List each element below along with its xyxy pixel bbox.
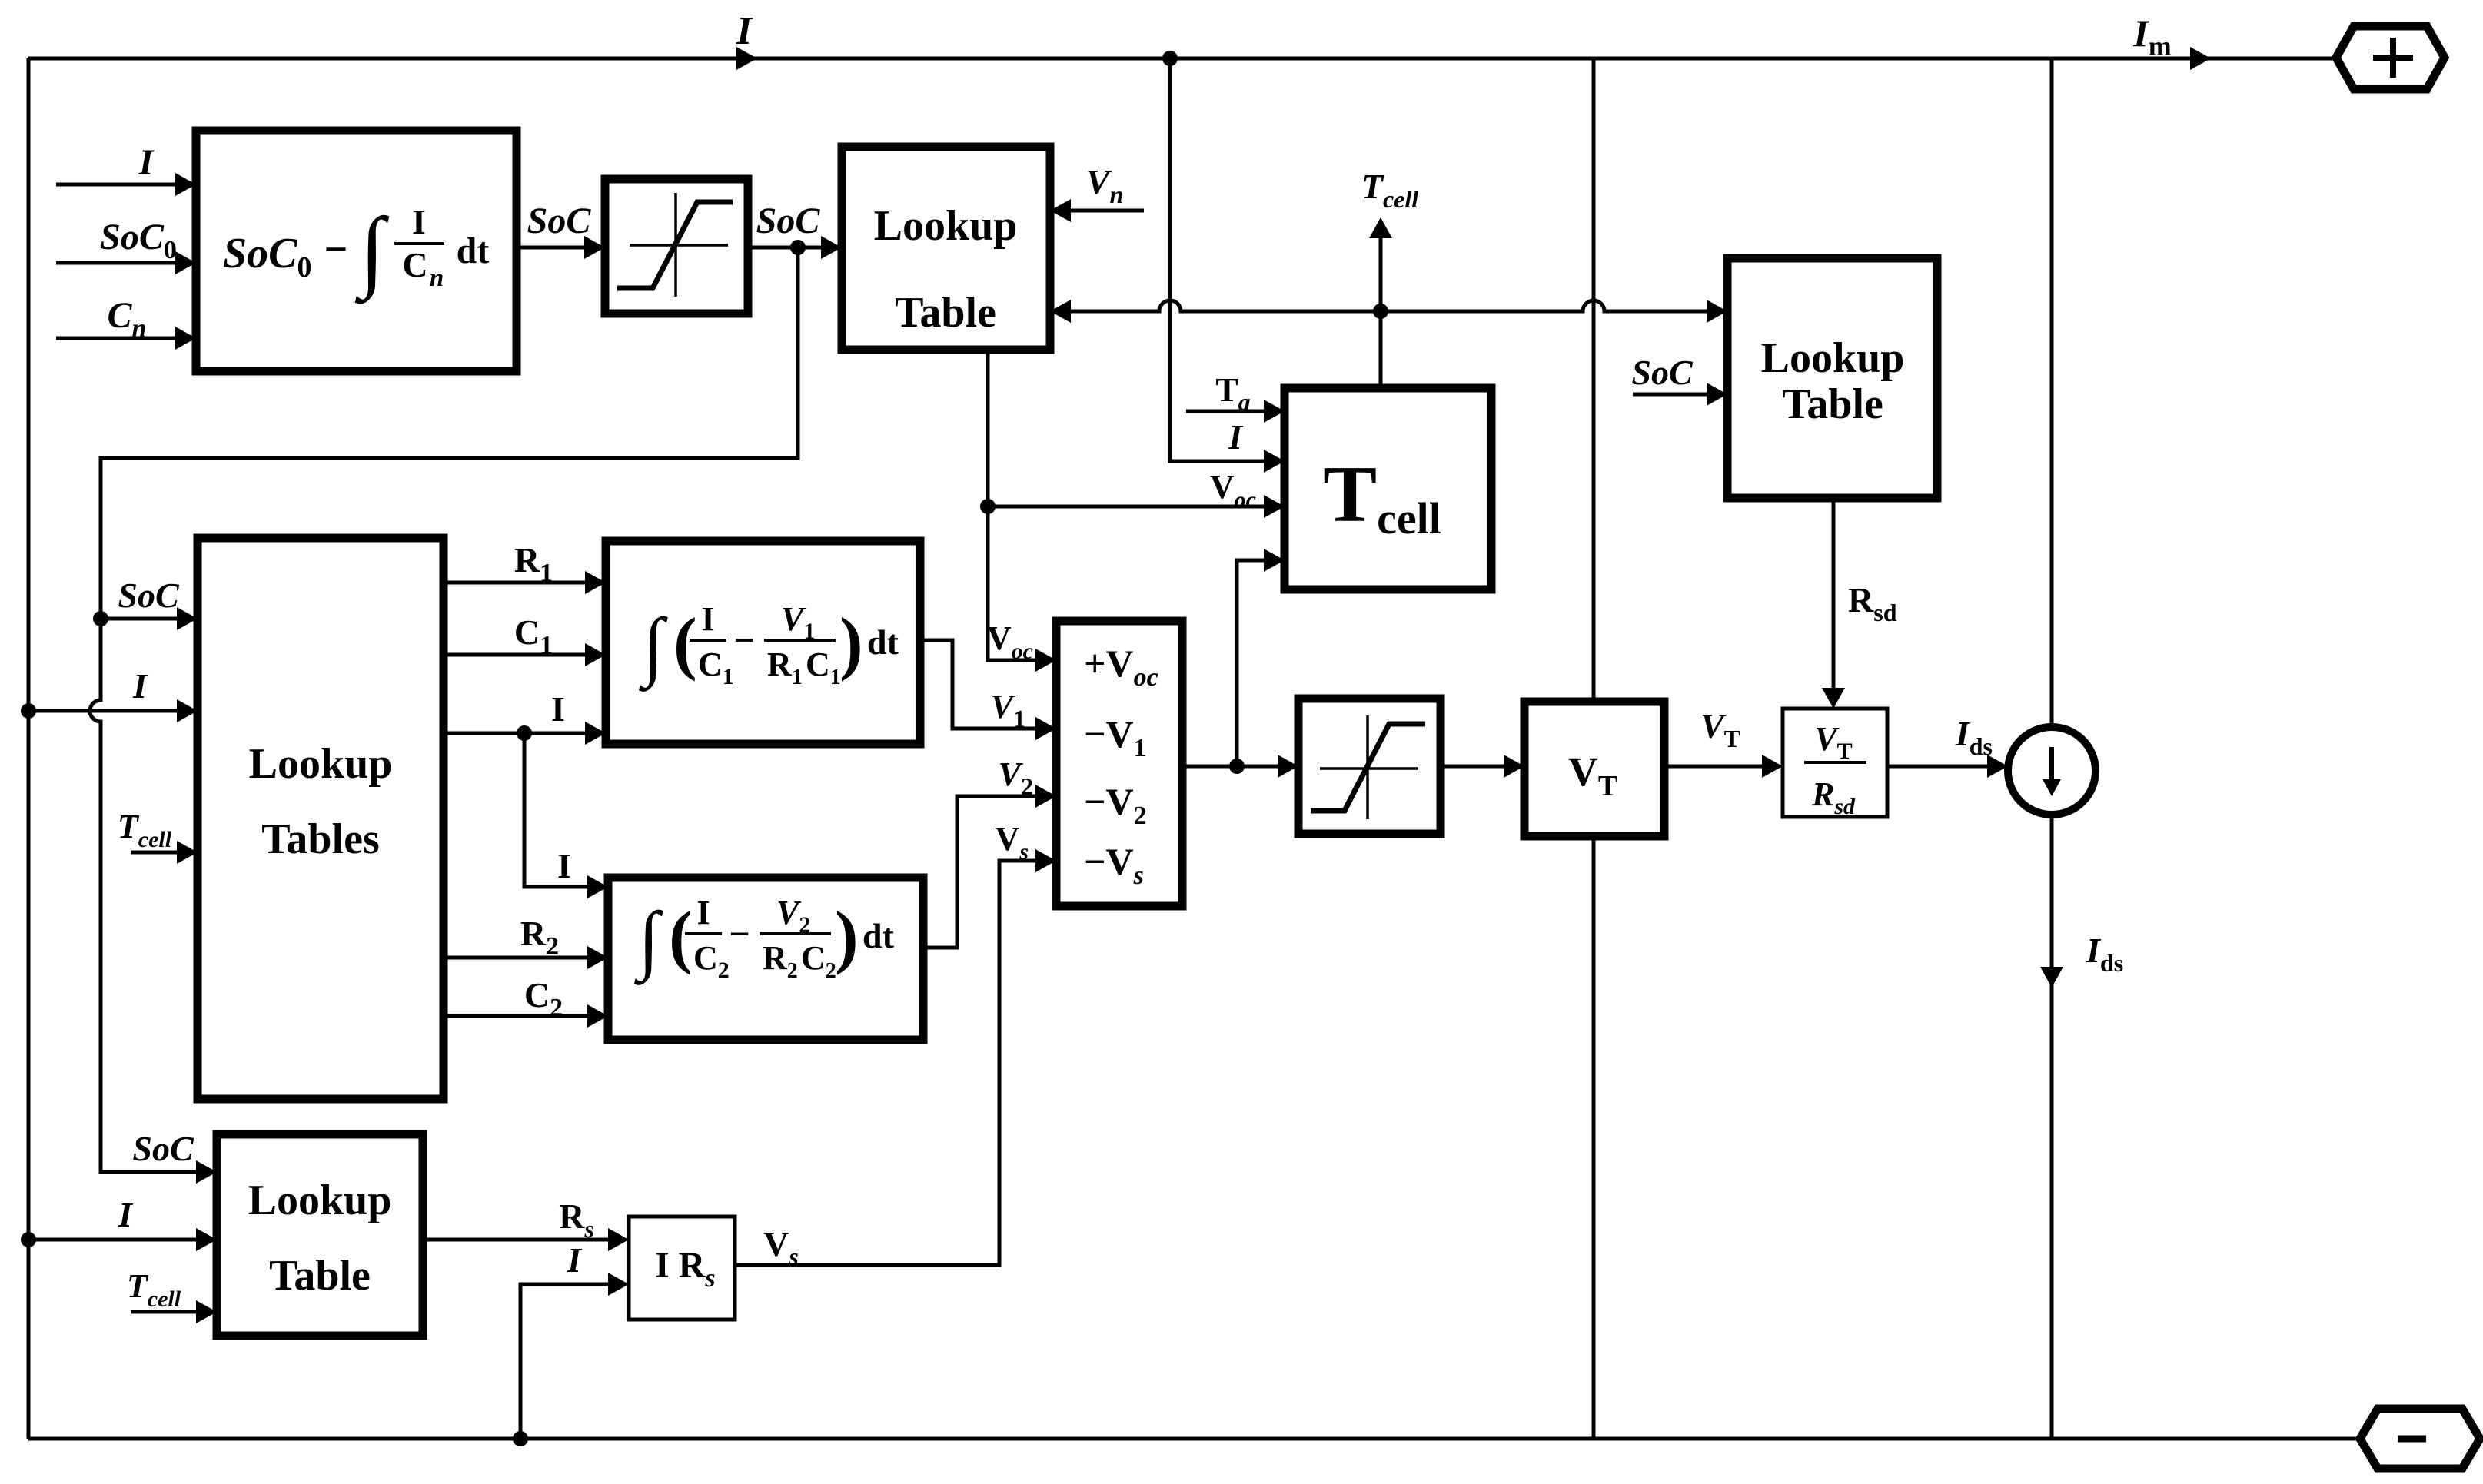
node: junction I to both RC integrators: [517, 725, 532, 741]
label Im on top rail: [2132, 12, 2171, 61]
label V1: [991, 688, 1025, 732]
label C1: [514, 613, 553, 659]
label I (RC integrator 2 input): [557, 846, 571, 885]
label Ids (wire): [1955, 714, 1993, 760]
label I (IRs input): [567, 1240, 583, 1280]
node: junction SoC branch: [790, 240, 806, 255]
node: junction Voc branch to Tcell block: [980, 499, 996, 514]
svg-text:∫: ∫: [638, 603, 668, 692]
wire: Vs from IRs to summing block: [735, 849, 1056, 1265]
label Ta: [1215, 371, 1250, 416]
arrow: SoC into saturation: [584, 236, 605, 259]
label I (bottom lookup table input): [118, 1195, 134, 1234]
label Tcell (middle lookup tables input): [118, 808, 172, 852]
wire: I input from left rail to bottom lookup table: [28, 1228, 217, 1251]
wire: SoC branch into middle lookup tables: [101, 607, 198, 630]
label Tcell (bottom lookup table input): [127, 1267, 181, 1312]
wire: Rs output to IRs block: [423, 1228, 629, 1251]
wire: Rsd output down to divider: [1822, 498, 1845, 709]
label I on top rail: [736, 9, 753, 53]
wire: summing output to saturation 2: [1182, 755, 1298, 778]
block: self-discharge current divider VT/Rsd: [1783, 709, 1887, 819]
svg-text:dt: dt: [867, 622, 899, 662]
svg-text:SoC: SoC: [1631, 353, 1694, 392]
wire: I branch from top rail to Tcell block: [1170, 58, 1285, 473]
wire: I branch from bottom rail to IRs block: [520, 1273, 629, 1439]
label I (RC integrator 1 input): [551, 689, 565, 729]
block: RC branch integrator 1 (int(I/C1 - V1/R1C1)dt): [606, 541, 920, 744]
block: series resistance lookup table (Rs = f(SoC,I,Tcell)): [217, 1134, 423, 1336]
arrow: Cn into integrator block: [175, 327, 196, 350]
node: junction SoC branch to middle lookup tables: [93, 611, 108, 626]
svg-text:Table: Table: [1782, 380, 1883, 428]
svg-text:dt: dt: [863, 916, 895, 955]
wire: Tcell input stub to middle lookup tables: [131, 841, 198, 864]
label R2: [520, 914, 559, 961]
svg-text:I: I: [132, 666, 148, 705]
terminal: - (negative battery terminal): [2360, 1409, 2480, 1469]
svg-text:Lookup: Lookup: [248, 1177, 392, 1224]
label I (integrator input): [138, 142, 155, 183]
terminal: + (positive battery terminal): [2336, 26, 2445, 89]
svg-text:Lookup: Lookup: [874, 202, 1018, 250]
block: self-discharge lookup table (Rsd = f(SoC,Tcell)): [1727, 258, 1937, 498]
wire: Ids to current source: [1887, 755, 2008, 778]
block: ohmic drop multiplier IRs: [629, 1217, 735, 1320]
arrow: Im flow on top rail: [2190, 47, 2211, 70]
wire: Vn input stub: [1050, 199, 1144, 222]
label VT (wire): [1700, 706, 1740, 752]
wire: branch from top rail down to VT block: [1592, 58, 1596, 702]
block: RC branch integrator 2 (int(I/C2 - V2/R2C2)dt): [608, 878, 923, 1040]
node: junction left rail to I input (middle lookup tables): [21, 703, 36, 719]
wire: Voc output down to summing block: [988, 350, 1056, 672]
svg-text:Table: Table: [269, 1252, 371, 1300]
block: terminal voltage VT: [1524, 702, 1664, 836]
wire: SoC feedback down-left-down to lower blocks: [90, 247, 798, 1184]
label Voc (Tcell input): [1210, 468, 1256, 513]
svg-text:SoC: SoC: [118, 576, 180, 615]
svg-text:n: n: [430, 264, 444, 292]
label R1: [514, 540, 553, 587]
svg-text:−: −: [729, 914, 750, 954]
wire: I feed to RC integrator 2: [524, 733, 608, 898]
svg-text:dt: dt: [457, 231, 490, 271]
svg-text:I: I: [736, 9, 753, 53]
svg-text:∫: ∫: [354, 199, 390, 304]
block: R1 C1 R2 C2 lookup tables: [198, 538, 444, 1099]
wire: I input stub to integrator block: [56, 183, 177, 187]
svg-text:SoC: SoC: [756, 201, 821, 241]
svg-text:I: I: [696, 894, 710, 931]
component: controlled current source Ids: [2008, 727, 2096, 815]
label Rs: [559, 1197, 594, 1243]
label SoC0: [100, 217, 177, 264]
label I (middle lookup tables input): [132, 666, 148, 705]
svg-text:): ): [839, 603, 863, 682]
label: formula integrator 1: [638, 600, 899, 692]
wire: V2 from integrator 2 to summing block: [923, 785, 1056, 948]
block: cell temperature model Tcell: [1285, 388, 1491, 589]
svg-text:∫: ∫: [633, 896, 663, 985]
svg-text:C: C: [402, 245, 427, 284]
block: voltage summing (+Voc -V1 -V2 -Vs): [1056, 621, 1182, 906]
svg-text:Tables: Tables: [261, 815, 380, 863]
label Vn: [1086, 162, 1123, 208]
svg-text:I: I: [412, 202, 426, 241]
block: saturation limiter (terminal voltage clamp): [1298, 699, 1441, 834]
label Tcell (output): [1361, 167, 1418, 213]
label: formula SoC0 - int I/Cn dt: [223, 199, 489, 304]
node: junction left rail to I input (bottom lookup table): [21, 1232, 36, 1247]
svg-text:Lookup: Lookup: [249, 740, 393, 788]
wire: saturation output SoC: [748, 246, 823, 250]
label V2: [999, 755, 1033, 800]
block: SoC coulomb-counting integrator (SoC0 - int I/Cn dt): [196, 131, 517, 371]
wire: Voc branch to Tcell block: [988, 495, 1285, 518]
label Ids (lower wire): [2086, 931, 2123, 977]
svg-text:I: I: [701, 600, 714, 638]
wire: V1 from integrator 1 to summing block: [920, 640, 1056, 740]
wire: Cn input stub: [56, 337, 177, 340]
wire: SoC input stub to Rsd lookup table: [1633, 383, 1727, 406]
label SoC (Rsd lookup input): [1631, 353, 1694, 392]
svg-text:(: (: [673, 603, 697, 682]
label Rsd: [1848, 580, 1897, 626]
svg-text:I: I: [118, 1195, 134, 1234]
node: junction top rail to I branch: [1162, 51, 1178, 66]
label SoC (before saturation): [527, 201, 592, 241]
block: OCV lookup table (Voc = f(SoC, Vn, Tcell)): [842, 147, 1050, 350]
wire: VT output to Ids divider: [1664, 755, 1783, 778]
svg-text:−: −: [324, 226, 348, 272]
wire: top rail I (left border top to + terminal): [28, 57, 2336, 61]
svg-text:I: I: [551, 689, 565, 729]
node: junction bottom rail to IRs I branch: [513, 1431, 528, 1446]
node: junction summing output branch: [1229, 759, 1245, 774]
arrow: I flow on top rail: [736, 47, 757, 70]
wire: I feed to RC integrator 1: [444, 722, 606, 745]
svg-text:I: I: [567, 1240, 583, 1280]
wire: I input from left rail to middle lookup tables: [28, 699, 198, 722]
wire: C2 output: [444, 1004, 608, 1028]
wire: C1 output: [444, 643, 606, 666]
node: junction Tcell output onto feedback line: [1373, 304, 1388, 319]
wire: Ta input stub: [1186, 400, 1285, 423]
wire: Tcell input stub to bottom lookup table: [131, 1300, 217, 1323]
wire: terminal-voltage feedback into Tcell block: [1237, 549, 1285, 766]
wire: integrator output SoC: [517, 246, 586, 250]
label SoC (bottom lookup table input): [132, 1129, 194, 1168]
block: saturation limiter (SoC clamp): [605, 179, 748, 314]
wire: bottom rail to - terminal: [28, 1437, 2360, 1441]
label Cn: [108, 295, 147, 343]
arrow: I into integrator block: [175, 173, 196, 196]
svg-text:SoC: SoC: [132, 1129, 194, 1168]
svg-text:I: I: [1228, 417, 1244, 456]
wire: VT block bottom to bottom rail: [1592, 836, 1596, 1439]
label SoC (after saturation): [756, 201, 821, 241]
label SoC (middle lookup tables input): [118, 576, 180, 615]
label Vs (summing input): [996, 820, 1029, 865]
wire: current source top to top rail: [2050, 58, 2054, 727]
svg-text:Table: Table: [895, 289, 996, 337]
arrow: SoC into OCV lookup table: [821, 236, 842, 259]
wire: Tcell feedback to OCV and Rsd lookup tables: [1050, 300, 1727, 323]
wire: current source bottom to bottom rail: [2050, 815, 2054, 1439]
arrow: SoC0 into integrator block: [175, 251, 196, 274]
wire: SoC0 input stub: [56, 261, 177, 265]
label C2: [524, 975, 563, 1022]
svg-text:I: I: [557, 846, 571, 885]
svg-text:SoC: SoC: [527, 201, 592, 241]
svg-text:−: −: [733, 620, 754, 661]
svg-text:Lookup: Lookup: [1761, 334, 1905, 382]
wire: R1 output: [444, 571, 606, 594]
wire: Tcell output upward: [1369, 217, 1392, 388]
label Voc (summing input): [987, 619, 1033, 664]
wire: left border rail: [27, 58, 31, 1439]
wire: saturation 2 output to VT block: [1441, 755, 1524, 778]
label: formula integrator 2: [633, 894, 894, 985]
label I (Tcell input): [1228, 417, 1244, 456]
svg-text:I: I: [138, 142, 155, 183]
wire: R2 output: [444, 946, 608, 969]
label Vs (near IRs): [763, 1224, 799, 1270]
svg-text:): ): [835, 897, 859, 975]
arrow: Ids direction on lower wire: [2040, 967, 2063, 988]
svg-text:(: (: [669, 897, 693, 975]
